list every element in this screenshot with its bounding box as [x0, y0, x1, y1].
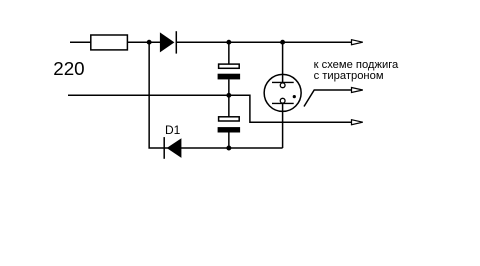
svg-text:с тиратроном: с тиратроном [314, 70, 384, 82]
svg-text:D1: D1 [165, 123, 181, 137]
svg-text:220: 220 [53, 58, 84, 79]
